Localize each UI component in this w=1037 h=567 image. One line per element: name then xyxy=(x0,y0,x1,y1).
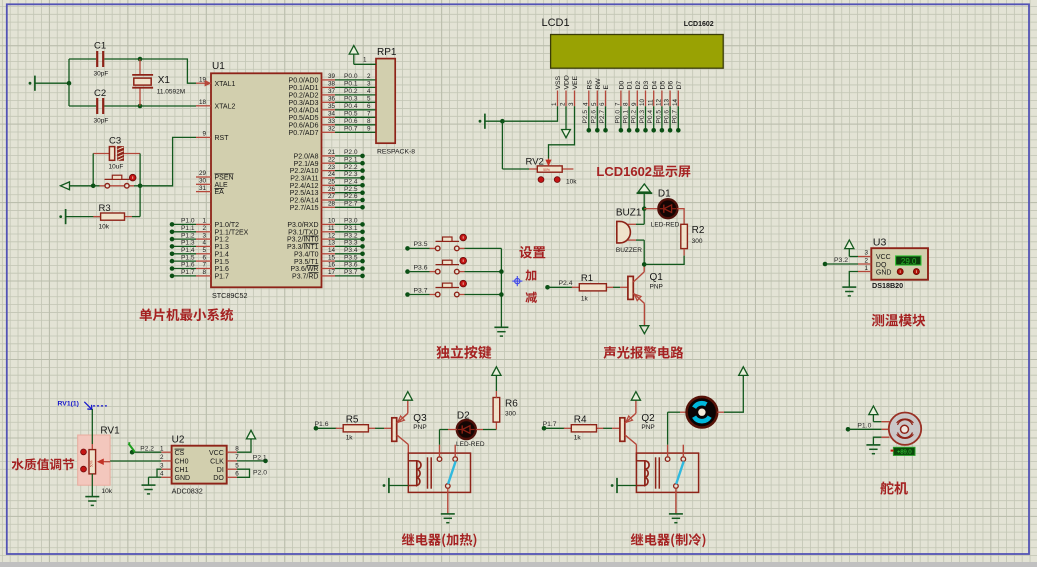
RP1 pin 9 number xyxy=(367,126,371,133)
wire net P0.2 to RP1 xyxy=(335,88,376,95)
svg-text:D3: D3 xyxy=(643,81,650,90)
wire C3 left leg xyxy=(92,154,94,186)
pin 9 RST xyxy=(196,131,229,142)
svg-text:9: 9 xyxy=(631,102,638,106)
pin 31 EA xyxy=(196,185,224,196)
pin 4 P1.3 xyxy=(196,240,229,251)
label 设置 xyxy=(519,246,545,259)
svg-text:7: 7 xyxy=(235,454,239,461)
wire Q3 to relay xyxy=(407,445,409,461)
pin 14 P3.4 xyxy=(294,247,336,258)
pin 33 P0.6 xyxy=(289,118,336,129)
svg-text:6: 6 xyxy=(202,254,206,261)
junction button P3.6 xyxy=(499,269,504,274)
pin 2 P1.1 xyxy=(196,225,249,236)
svg-text:P3.4: P3.4 xyxy=(344,247,358,254)
pin 27 P2.6 xyxy=(290,193,336,204)
pin 29 PSEN xyxy=(196,170,234,181)
svg-text:P1.7: P1.7 xyxy=(181,269,195,276)
RP1 pin 6 number xyxy=(367,103,371,110)
svg-text:16: 16 xyxy=(328,262,336,269)
svg-text:DO: DO xyxy=(213,475,224,482)
LCD pin 10 D3 xyxy=(639,81,650,107)
push-button P3.7 xyxy=(430,280,502,297)
label LCD1602 xyxy=(684,21,714,28)
svg-text:RS: RS xyxy=(586,80,593,90)
svg-text:1: 1 xyxy=(551,102,558,106)
pin 25 P2.4 xyxy=(290,179,336,190)
svg-text:P2.7: P2.7 xyxy=(344,201,358,208)
svg-text:26: 26 xyxy=(328,186,336,193)
svg-text:P2.1/A9: P2.1/A9 xyxy=(294,161,319,168)
svg-text:5: 5 xyxy=(202,247,206,254)
voltage probe RV1(1) xyxy=(58,401,107,410)
svg-text:7: 7 xyxy=(202,262,206,269)
svg-text:37: 37 xyxy=(328,88,336,95)
svg-text:11: 11 xyxy=(647,99,654,106)
label DS18B20 xyxy=(872,281,903,290)
relay switch blade xyxy=(676,461,684,484)
label 继电器(制冷) xyxy=(631,533,706,547)
svg-text:P1.0/T2: P1.0/T2 xyxy=(215,222,240,229)
svg-text:P0.2: P0.2 xyxy=(631,110,638,124)
wire VSS xyxy=(502,106,557,121)
svg-text:PNP: PNP xyxy=(641,424,654,431)
relay contact pole xyxy=(446,484,451,514)
wire motor to power xyxy=(717,376,743,412)
wire net P1.5 xyxy=(170,254,196,263)
svg-text:DQ: DQ xyxy=(876,262,887,269)
power VDD down-arrow xyxy=(562,106,571,137)
svg-text:P0.4: P0.4 xyxy=(647,110,654,124)
svg-text:R5: R5 xyxy=(346,414,359,425)
pin 30 ALE xyxy=(196,178,228,189)
svg-text:29: 29 xyxy=(199,170,207,177)
pin 8 P1.7 xyxy=(196,269,229,280)
motor (cooling fan) xyxy=(687,397,718,428)
label BUZ1 xyxy=(616,208,642,219)
power symbol (Q2) xyxy=(631,392,640,401)
svg-text:P1.3: P1.3 xyxy=(181,240,195,247)
svg-text:32: 32 xyxy=(328,126,336,133)
capacitor C3 xyxy=(93,136,140,171)
RP1 pin 2 number xyxy=(367,73,371,80)
U2 pin 1 CS xyxy=(160,445,185,456)
svg-text:27: 27 xyxy=(328,193,336,200)
pin 19 XTAL1 xyxy=(196,76,235,87)
svg-text:R4: R4 xyxy=(574,414,587,425)
svg-text:P1.1/T2EX: P1.1/T2EX xyxy=(215,229,249,236)
svg-text:P3.3/INT1: P3.3/INT1 xyxy=(287,244,319,251)
svg-text:VCC: VCC xyxy=(876,254,891,261)
title 单片机最小系统 xyxy=(140,308,234,321)
LCD pin 13 D6 xyxy=(664,81,675,107)
svg-text:P0.0: P0.0 xyxy=(344,73,358,80)
pin 16 P3.6 xyxy=(290,262,335,273)
svg-text:P2.5: P2.5 xyxy=(344,186,358,193)
wire net P2.1 xyxy=(335,156,365,165)
wire RST xyxy=(140,137,196,185)
label Q1 xyxy=(650,272,664,283)
svg-text:1: 1 xyxy=(363,57,367,64)
LCD pin 12 D5 xyxy=(656,81,667,107)
svg-text:PNP: PNP xyxy=(650,284,663,291)
svg-text:36: 36 xyxy=(328,96,336,103)
svg-text:P2.6: P2.6 xyxy=(591,110,598,124)
svg-text:10: 10 xyxy=(328,218,336,225)
svg-text:P2.3: P2.3 xyxy=(344,171,358,178)
U3 pin numbers xyxy=(864,250,868,272)
wire net P3.1 xyxy=(335,225,365,234)
svg-text:P2.1: P2.1 xyxy=(253,454,267,461)
svg-text:D2: D2 xyxy=(635,81,642,90)
relay contact pole xyxy=(674,484,679,514)
relay coil xyxy=(636,457,659,488)
LCD pin 1 VSS xyxy=(551,75,562,106)
svg-text:8: 8 xyxy=(235,445,239,452)
pin 38 P0.1 xyxy=(289,81,336,92)
svg-text:P2.4/A12: P2.4/A12 xyxy=(290,183,319,190)
svg-text:LCD1602: LCD1602 xyxy=(684,21,714,28)
svg-text:18: 18 xyxy=(199,99,207,106)
svg-text:P1.2: P1.2 xyxy=(215,237,230,244)
svg-text:5: 5 xyxy=(367,96,371,103)
servo angle display xyxy=(891,447,915,455)
wire net P2.1 xyxy=(237,454,268,463)
wire net P2.2 xyxy=(335,164,365,173)
svg-text:1k: 1k xyxy=(346,434,354,441)
svg-text:28: 28 xyxy=(328,201,336,208)
svg-text:RST: RST xyxy=(215,135,230,142)
relay body xyxy=(408,453,470,492)
svg-text:1: 1 xyxy=(160,445,164,452)
ground (relay coil) xyxy=(383,478,409,493)
label 减 xyxy=(526,292,537,303)
svg-text:P0.7: P0.7 xyxy=(344,126,358,133)
power symbol (R6) xyxy=(492,367,501,398)
wire net P1.0 xyxy=(846,422,882,431)
svg-text:Q2: Q2 xyxy=(641,413,655,424)
svg-text:LCD1: LCD1 xyxy=(542,17,570,29)
resistor-pack RP1 body xyxy=(376,59,395,144)
relay contact common xyxy=(665,445,670,462)
U2 pin 2 CH0 xyxy=(160,454,189,465)
wire VEE to RV2 wiper xyxy=(549,106,575,158)
svg-text:4: 4 xyxy=(202,240,206,247)
svg-text:P2.4: P2.4 xyxy=(559,280,573,287)
capacitor C1 xyxy=(69,41,140,78)
svg-text:14: 14 xyxy=(328,247,336,254)
svg-text:6: 6 xyxy=(599,102,606,106)
push-button reset xyxy=(93,174,140,188)
wire button trunk xyxy=(500,248,502,327)
svg-text:P0.5: P0.5 xyxy=(655,110,662,124)
svg-text:10: 10 xyxy=(639,98,646,106)
ground (relay contact) xyxy=(669,514,683,523)
svg-text:LCD1602: LCD1602 xyxy=(596,164,652,179)
transistor Q1 PNP xyxy=(628,264,645,325)
svg-text:P0.6: P0.6 xyxy=(664,110,671,124)
U3 pin names xyxy=(876,254,892,276)
wire net P0.1 (LCD) xyxy=(623,106,632,132)
svg-text:RV1: RV1 xyxy=(100,426,120,437)
svg-text:BUZ1: BUZ1 xyxy=(616,208,642,219)
U3 temperature display xyxy=(896,256,921,266)
wire net P2.0 (DI/DO) xyxy=(237,469,267,477)
svg-text:P0.4/AD4: P0.4/AD4 xyxy=(289,107,319,114)
svg-text:GND: GND xyxy=(876,269,892,276)
svg-text:2: 2 xyxy=(202,225,206,232)
svg-text:LED-RED: LED-RED xyxy=(456,441,485,448)
svg-text:P3.7: P3.7 xyxy=(414,287,428,294)
svg-text:P3.2: P3.2 xyxy=(344,232,358,239)
svg-text:9: 9 xyxy=(202,131,206,138)
wire net P3.5 xyxy=(335,254,365,263)
svg-text:CH0: CH0 xyxy=(175,459,189,466)
svg-text:P0.2: P0.2 xyxy=(344,88,358,95)
svg-text:RV1(1): RV1(1) xyxy=(58,401,79,408)
svg-text:P1.5: P1.5 xyxy=(181,254,195,261)
svg-text:LED-RED: LED-RED xyxy=(651,222,680,229)
resistor R4 xyxy=(564,414,604,441)
highlight box RV1 xyxy=(78,435,110,485)
svg-text:P2.7: P2.7 xyxy=(599,110,606,124)
svg-text:P0.4: P0.4 xyxy=(344,103,358,110)
LCD pin 14 D7 xyxy=(672,81,683,107)
svg-text:P3.5: P3.5 xyxy=(344,254,358,261)
label RESPACK-8 xyxy=(377,149,415,156)
wire net P1.2 xyxy=(170,232,196,241)
svg-text:P2.7/A15: P2.7/A15 xyxy=(290,205,319,212)
svg-text:4: 4 xyxy=(367,88,371,95)
svg-text:Q3: Q3 xyxy=(413,413,427,424)
resistor R5 xyxy=(336,414,376,441)
pin 26 P2.5 xyxy=(290,186,336,197)
svg-text:P0.3: P0.3 xyxy=(639,110,646,124)
wire XTAL2 xyxy=(140,105,196,107)
svg-text:P2.2/A10: P2.2/A10 xyxy=(290,168,319,175)
wire net P2.5 (LCD) xyxy=(582,106,591,132)
svg-text:DS18B20: DS18B20 xyxy=(872,281,903,290)
svg-text:P0.1: P0.1 xyxy=(344,81,358,88)
svg-text:4: 4 xyxy=(160,471,164,478)
wire net P2.6 (LCD) xyxy=(591,106,600,132)
push-button P3.5 xyxy=(430,234,502,251)
LED D1 xyxy=(644,198,678,219)
svg-text:P3.7: P3.7 xyxy=(344,269,358,276)
power symbol (servo) xyxy=(869,406,878,422)
label 水质值调节 xyxy=(12,458,75,470)
svg-text:P3.2: P3.2 xyxy=(834,257,848,264)
resistor R1 xyxy=(572,273,614,303)
svg-text:38: 38 xyxy=(328,81,336,88)
wire net P0.4 (LCD) xyxy=(647,106,656,132)
pin 39 P0.0 xyxy=(289,73,336,84)
svg-text:D1: D1 xyxy=(627,81,634,90)
wire R5 to Q3 xyxy=(375,427,392,429)
svg-text:P3.6: P3.6 xyxy=(414,264,428,271)
pin 34 P0.5 xyxy=(289,111,336,122)
wire net P2.7 xyxy=(335,201,365,210)
potentiometer RV1 xyxy=(81,426,121,496)
wire net P2.4 xyxy=(545,280,573,290)
junction C1/X1 xyxy=(138,57,143,62)
svg-text:VCC: VCC xyxy=(209,450,224,457)
svg-text:7: 7 xyxy=(367,111,371,118)
svg-text:D7: D7 xyxy=(676,81,683,90)
pin 3 P1.2 xyxy=(196,232,229,243)
junction C2/X1 xyxy=(138,104,143,109)
IC U3 DS18B20 body xyxy=(871,248,928,280)
pin 17 P3.7 xyxy=(292,269,335,280)
wire net P3.2 xyxy=(335,232,365,241)
svg-text:P3.5: P3.5 xyxy=(414,241,428,248)
wire C1-C2 trunk xyxy=(68,59,70,106)
wire net P1.0 xyxy=(170,218,196,227)
label U3 xyxy=(873,236,887,248)
wire net P2.7 (LCD) xyxy=(599,106,608,132)
power symbol VCC at RP1 xyxy=(349,46,358,65)
svg-text:P3.6/WR: P3.6/WR xyxy=(290,266,318,273)
pin 5 P1.4 xyxy=(196,247,229,258)
label U2 xyxy=(172,435,185,446)
svg-text:10uF: 10uF xyxy=(109,164,124,171)
pin 23 P2.2 xyxy=(290,164,336,175)
svg-text:P3.6: P3.6 xyxy=(344,262,358,269)
wire net P0.1 to RP1 xyxy=(335,81,376,88)
svg-text:21: 21 xyxy=(328,149,336,156)
svg-text:P0.7/AD7: P0.7/AD7 xyxy=(289,130,319,137)
svg-text:50%: 50% xyxy=(543,168,550,172)
svg-text:R2: R2 xyxy=(692,225,705,236)
pin 24 P2.3 xyxy=(290,171,335,182)
ground (buttons) xyxy=(494,327,508,336)
svg-text:P3.2/INT0: P3.2/INT0 xyxy=(287,237,319,244)
U2 pin 6 DO xyxy=(213,471,239,482)
wire net P3.6 xyxy=(405,264,429,274)
svg-text:15: 15 xyxy=(328,254,336,261)
svg-text:3: 3 xyxy=(367,81,371,88)
svg-text:10k: 10k xyxy=(102,488,113,495)
svg-text:D6: D6 xyxy=(668,81,675,90)
svg-text:P2.6: P2.6 xyxy=(344,193,358,200)
svg-text:P0.0: P0.0 xyxy=(614,110,621,124)
U3 buttons xyxy=(897,269,919,275)
svg-text:P0.1: P0.1 xyxy=(623,110,630,124)
relay coil xyxy=(408,457,431,488)
power symbol (motor) xyxy=(739,367,748,377)
pin 1 P1.0 xyxy=(196,218,239,229)
junction buzzer top xyxy=(642,206,647,211)
LCD LCD1 screen xyxy=(551,35,724,69)
svg-text:P0.2/AD2: P0.2/AD2 xyxy=(289,93,319,100)
LCD pin 7 D0 xyxy=(615,81,626,107)
svg-text:1k: 1k xyxy=(574,434,582,441)
relay contact common xyxy=(437,445,442,462)
LCD pin 3 VEE xyxy=(568,75,579,106)
svg-text:CS: CS xyxy=(175,450,185,457)
svg-text:E: E xyxy=(603,85,610,90)
svg-text:P2.3/A11: P2.3/A11 xyxy=(290,176,318,183)
svg-text:2: 2 xyxy=(160,454,164,461)
label D2 xyxy=(457,410,470,421)
svg-text:P2.4: P2.4 xyxy=(344,179,358,186)
svg-text:P0.0/AD0: P0.0/AD0 xyxy=(289,78,319,85)
RP1 pin 8 number xyxy=(367,118,371,125)
pin 35 P0.4 xyxy=(289,103,336,114)
label 舵机 xyxy=(880,481,908,495)
pin 36 P0.3 xyxy=(289,96,336,107)
svg-text:8: 8 xyxy=(367,118,371,125)
power-down arrow (Q1 emitter) xyxy=(640,326,649,334)
svg-text:3: 3 xyxy=(202,232,206,239)
svg-text:8: 8 xyxy=(623,102,630,106)
svg-text:30pF: 30pF xyxy=(94,118,109,125)
svg-text:CH1: CH1 xyxy=(175,467,189,474)
wire Q2 to relay xyxy=(635,445,637,461)
wire relay1 to D2 xyxy=(440,430,449,445)
relay contact NC xyxy=(453,445,458,462)
svg-text:P2.6/A14: P2.6/A14 xyxy=(290,198,319,205)
label 测温模块 xyxy=(872,314,926,327)
resistor R3 xyxy=(93,203,140,231)
pin 32 P0.7 xyxy=(289,126,336,137)
label STC89C52 xyxy=(212,291,248,300)
svg-text:34: 34 xyxy=(328,111,336,118)
svg-text:10k: 10k xyxy=(566,179,577,186)
wire net P0.7 to RP1 xyxy=(335,126,376,133)
label Q2 xyxy=(641,413,655,424)
pin 10 P3.0 xyxy=(287,218,335,229)
LCD pin 4 RS xyxy=(582,80,593,107)
LCD pin 8 D1 xyxy=(623,81,634,107)
svg-text:PSEN: PSEN xyxy=(215,175,234,182)
ground (R3) xyxy=(59,209,100,224)
push-button P3.6 xyxy=(430,257,502,274)
RP1 pin 4 number xyxy=(367,88,371,95)
svg-text:P1.4: P1.4 xyxy=(181,247,195,254)
svg-text:P1.7: P1.7 xyxy=(543,421,557,428)
power symbol (U3 VCC) xyxy=(845,240,854,257)
svg-text:25: 25 xyxy=(328,179,336,186)
label LCD1 xyxy=(542,17,570,29)
svg-text:P0.6: P0.6 xyxy=(344,118,358,125)
svg-text:P0.5: P0.5 xyxy=(344,111,358,118)
svg-text:VEE: VEE xyxy=(572,75,579,89)
wire net P0.6 to RP1 xyxy=(335,118,376,125)
wire net P1.6 xyxy=(170,262,196,271)
svg-text:14: 14 xyxy=(672,98,679,106)
junction Q1 collector xyxy=(642,262,647,267)
transistor Q3 PNP xyxy=(392,400,409,445)
svg-text:CLK: CLK xyxy=(210,459,224,466)
U2 pin 3 CH1 xyxy=(160,462,189,473)
wire net P1.4 xyxy=(170,247,196,256)
IC U2 ADC0832 body xyxy=(172,446,227,484)
junction button P3.7 xyxy=(499,292,504,297)
junction XTAL gnd xyxy=(67,81,72,86)
svg-text:22: 22 xyxy=(328,156,336,163)
svg-text:P2.2: P2.2 xyxy=(140,446,154,453)
svg-text:12: 12 xyxy=(328,232,336,239)
power symbol (buzzer) xyxy=(637,184,653,209)
LCD pin 5 RW xyxy=(591,78,602,107)
U2 pin 4 GND xyxy=(160,471,190,482)
ground (RV1) xyxy=(85,497,99,506)
ground (U2) xyxy=(142,477,156,494)
svg-text:P3.1/TXD: P3.1/TXD xyxy=(288,229,318,236)
svg-text:3: 3 xyxy=(568,102,575,106)
